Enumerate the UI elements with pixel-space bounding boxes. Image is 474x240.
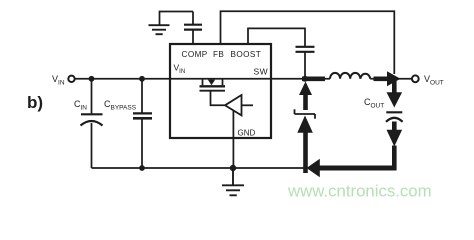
wire GND pin [232,111,234,169]
bold bottom return wire [318,166,397,171]
wire comp to ground [160,12,194,25]
output terminal VOUT [412,74,444,87]
svg-text:FB: FB [213,50,224,59]
bold wire COUT to corner [392,146,397,171]
node CIN top [89,76,95,82]
svg-text:SW: SW [254,67,269,77]
capacitor comp [184,12,202,45]
capacitor CBYPASS [104,79,152,168]
bold current arrow left on bottom wire [307,159,320,177]
wire inductor to VOUT [370,78,412,80]
bold current bar on SW line [302,77,325,82]
bold current arrow down below COUT [387,122,403,147]
svg-text:www.cntronics.com: www.cntronics.com [287,182,432,201]
wire BOOST [248,28,305,46]
svg-text:b): b) [27,93,43,112]
capacitor boost [296,47,315,79]
bold wire diode to bottom rail [303,132,308,173]
node GND rail [230,165,236,171]
wire bottom rail [92,167,305,169]
svg-text:GND: GND [238,129,256,138]
inductor L1 [330,73,370,79]
wire VIN rail [75,78,330,80]
node SW junction [302,76,308,82]
ground symbol comp [149,25,170,34]
capacitor COUT [364,97,403,122]
svg-text:BOOST: BOOST [231,50,262,59]
driver triangle internal [225,95,253,115]
ground symbol bottom [222,168,244,195]
capacitor CIN [74,79,103,168]
bold current arrow down at VOUT node [387,80,403,108]
bold current arrow right into VOUT node [374,71,401,86]
schottky diode D1 [295,109,316,132]
op-amp U1 IC box [170,44,271,138]
node CBYPASS bottom [139,165,145,171]
wire FB feedback [221,11,395,74]
transistor Q1 internal switch [200,79,226,106]
input terminal VIN [52,74,75,87]
svg-text:COMP: COMP [182,50,208,59]
node CBYPASS top [139,76,145,82]
bold current arrow up at diode [299,82,312,111]
